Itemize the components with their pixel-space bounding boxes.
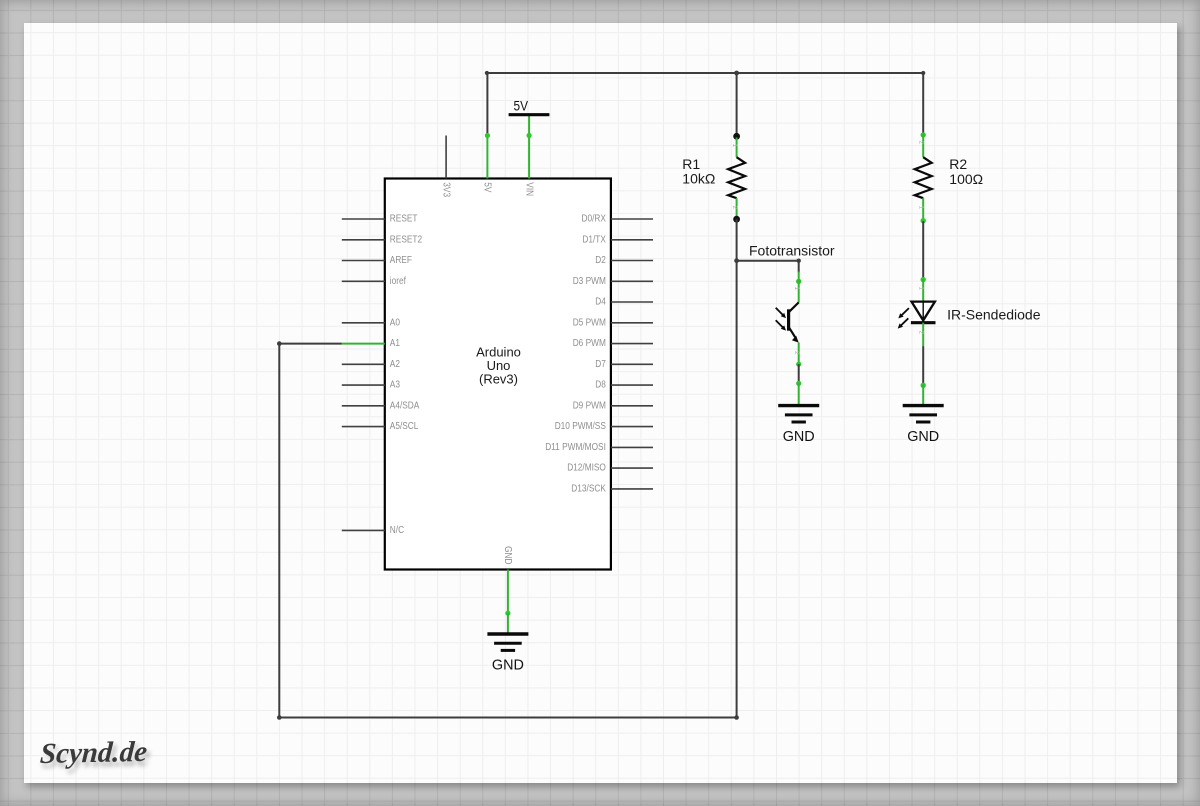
svg-text:D0/RX: D0/RX bbox=[582, 214, 607, 225]
svg-text:Fototransistor: Fototransistor bbox=[749, 242, 835, 258]
svg-text:A3: A3 bbox=[390, 380, 401, 391]
svg-text:(Rev3): (Rev3) bbox=[479, 371, 518, 386]
svg-text:A0: A0 bbox=[390, 317, 401, 328]
svg-text:A2: A2 bbox=[390, 359, 401, 370]
svg-text:ioref: ioref bbox=[390, 276, 406, 287]
svg-text:5V: 5V bbox=[482, 182, 493, 192]
svg-text:A4/SDA: A4/SDA bbox=[390, 400, 420, 411]
svg-text:D1/TX: D1/TX bbox=[582, 234, 606, 245]
svg-text:IR-Sendediode: IR-Sendediode bbox=[947, 306, 1041, 322]
svg-text:100Ω: 100Ω bbox=[949, 171, 983, 187]
svg-text:D9 PWM: D9 PWM bbox=[573, 400, 606, 411]
svg-text:GND: GND bbox=[502, 546, 513, 564]
svg-text:3V3: 3V3 bbox=[440, 182, 451, 197]
svg-text:R1: R1 bbox=[682, 156, 700, 172]
svg-text:GND: GND bbox=[783, 428, 815, 445]
svg-text:D7: D7 bbox=[595, 359, 606, 370]
svg-text:VIN: VIN bbox=[523, 182, 534, 196]
svg-text:N/C: N/C bbox=[390, 525, 404, 536]
svg-text:D13/SCK: D13/SCK bbox=[571, 484, 606, 495]
svg-text:1: 1 bbox=[918, 206, 925, 210]
svg-text:2: 2 bbox=[731, 206, 738, 210]
svg-text:GND: GND bbox=[492, 656, 524, 673]
svg-text:D2: D2 bbox=[595, 255, 606, 266]
svg-text:D10 PWM/SS: D10 PWM/SS bbox=[555, 421, 606, 432]
svg-text:RESET2: RESET2 bbox=[390, 234, 423, 245]
svg-text:R2: R2 bbox=[949, 156, 967, 172]
svg-text:D3 PWM: D3 PWM bbox=[573, 276, 606, 287]
svg-text:D5 PWM: D5 PWM bbox=[573, 317, 606, 328]
svg-text:RESET: RESET bbox=[390, 214, 418, 225]
svg-text:D12/MISO: D12/MISO bbox=[567, 463, 606, 474]
svg-text:2: 2 bbox=[793, 351, 800, 355]
svg-text:D6 PWM: D6 PWM bbox=[573, 338, 606, 349]
svg-text:1: 1 bbox=[731, 144, 738, 148]
svg-text:A5/SCL: A5/SCL bbox=[390, 421, 419, 432]
svg-text:GND: GND bbox=[907, 428, 939, 445]
svg-text:D8: D8 bbox=[595, 380, 606, 391]
svg-text:1: 1 bbox=[918, 287, 925, 291]
svg-text:1: 1 bbox=[793, 287, 800, 291]
svg-text:AREF: AREF bbox=[390, 255, 412, 266]
svg-text:10kΩ: 10kΩ bbox=[682, 171, 715, 187]
svg-text:D11 PWM/MOSI: D11 PWM/MOSI bbox=[545, 442, 606, 453]
svg-text:D4: D4 bbox=[595, 297, 606, 308]
svg-text:5V: 5V bbox=[514, 98, 529, 114]
svg-text:2: 2 bbox=[918, 331, 925, 335]
svg-text:A1: A1 bbox=[390, 338, 401, 349]
svg-text:2: 2 bbox=[918, 141, 925, 145]
